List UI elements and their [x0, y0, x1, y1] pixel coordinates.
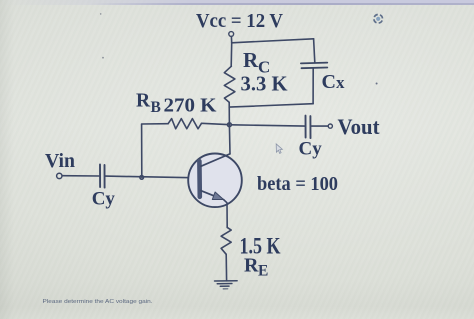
svg-text:B: B	[151, 99, 161, 116]
svg-text:Vcc = 12 V: Vcc = 12 V	[196, 10, 284, 32]
svg-text:Cy: Cy	[92, 189, 116, 210]
svg-text:E: E	[258, 263, 268, 280]
wire RC bottom to collector node	[228, 102, 230, 124]
svg-text:Vin: Vin	[45, 150, 75, 172]
stray dot 3	[376, 83, 378, 85]
wire RB left lead	[142, 123, 169, 125]
svg-text:R: R	[243, 48, 259, 72]
svg-text:Please determine the AC voltag: Please determine the AC voltage gain.	[43, 299, 154, 305]
wire RC top lead	[230, 43, 233, 66]
wire RB right lead	[202, 123, 228, 124]
svg-text:R: R	[244, 255, 259, 277]
mouse cursor	[276, 144, 282, 154]
svg-text:Cy: Cy	[299, 139, 323, 160]
wire collector node to Cy out	[231, 125, 304, 126]
resistor RC	[224, 66, 235, 102]
capacitor Cx	[301, 63, 327, 69]
wire collector vertical	[228, 125, 231, 154]
wire top rail	[232, 39, 314, 43]
svg-text:C: C	[322, 71, 336, 93]
wire Vcc stub	[230, 36, 232, 42]
svg-text:3.3 K: 3.3 K	[241, 72, 288, 96]
icon top-right	[373, 13, 384, 24]
resistor RE	[221, 227, 231, 254]
transistor Q1	[188, 154, 242, 208]
wire RB down to base node	[141, 124, 143, 177]
svg-text:x: x	[336, 73, 345, 92]
svg-text:270 K: 270 K	[164, 95, 217, 117]
wire right loop upper	[314, 39, 315, 63]
capacitor Cy output	[306, 116, 311, 139]
svg-text:Vout: Vout	[338, 114, 381, 139]
wire RE to ground	[225, 254, 227, 280]
wire loop bottom	[229, 104, 313, 107]
node collector junction	[228, 123, 232, 127]
wire right loop lower	[312, 68, 314, 104]
wire emitter	[224, 200, 228, 228]
node Vin terminal	[57, 173, 62, 178]
stray dot 1	[100, 13, 102, 15]
wire base	[105, 176, 197, 178]
wire Cy out to Vout	[311, 125, 328, 127]
wire Vin to Cy in	[62, 175, 99, 177]
node Vout terminal	[328, 124, 332, 128]
ground	[215, 281, 238, 289]
capacitor Cy input	[100, 165, 105, 188]
svg-text:R: R	[136, 91, 151, 112]
resistor RB	[168, 119, 201, 129]
stray dot 2	[102, 57, 104, 59]
svg-text:beta = 100: beta = 100	[257, 173, 338, 195]
node Vcc terminal	[229, 32, 234, 37]
node base junction	[140, 176, 144, 180]
